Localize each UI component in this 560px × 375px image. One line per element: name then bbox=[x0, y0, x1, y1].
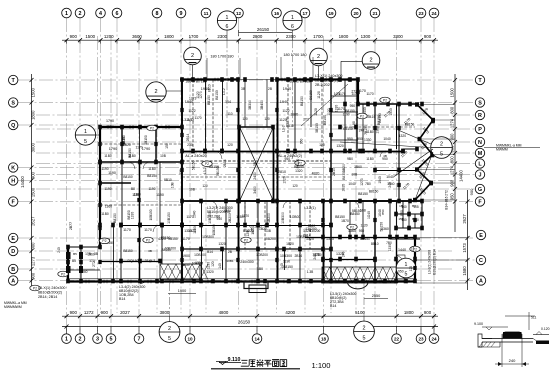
svg-text:1.3B: 1.3B bbox=[307, 270, 314, 274]
svg-text:B8150: B8150 bbox=[161, 248, 171, 252]
wall lower-left wing top bbox=[68, 246, 100, 248]
thin line across shaft top opening bbox=[239, 79, 278, 81]
plan label 1940 bbox=[283, 87, 291, 91]
grid line column 1 bbox=[66, 18, 68, 331]
wall left block partition v2 bbox=[155, 127, 157, 162]
plan label 3B bbox=[148, 249, 152, 253]
plan label 1790 bbox=[109, 147, 117, 151]
plan label 130200 bbox=[305, 227, 316, 231]
plan label 1B20 bbox=[286, 242, 294, 246]
wall grid18 vertical lower bbox=[323, 201, 325, 283]
svg-text:9B0: 9B0 bbox=[347, 157, 353, 161]
svg-text:15B: 15B bbox=[398, 217, 403, 221]
left wing dark blobs bbox=[66, 252, 100, 273]
plan label 1320 bbox=[218, 242, 226, 246]
svg-text:2B14: 2B14 bbox=[303, 233, 311, 237]
svg-text:A: A bbox=[11, 278, 15, 284]
outer wall right-central top step bbox=[357, 80, 359, 105]
svg-text:950: 950 bbox=[299, 138, 303, 144]
stair hatch area left (crosshatch) bbox=[160, 264, 208, 280]
plan label 1170 bbox=[123, 228, 131, 232]
plan label 7B0 bbox=[365, 182, 371, 186]
grid line column 7 bbox=[138, 36, 140, 331]
detail callout circle 1/5 (left block) bbox=[75, 125, 100, 145]
plan label 1040 bbox=[383, 137, 391, 141]
svg-text:5B150: 5B150 bbox=[315, 123, 319, 133]
outer wall bottom main bbox=[67, 280, 415, 282]
wall left block partition v1 bbox=[121, 127, 123, 162]
left overall dimension 14400 bbox=[20, 176, 25, 188]
svg-text:22: 22 bbox=[394, 336, 400, 341]
svg-text:3400: 3400 bbox=[253, 186, 257, 194]
plan label B8450 bbox=[350, 212, 360, 216]
plan label B8150 bbox=[123, 249, 132, 253]
plan label B8150 bbox=[123, 175, 132, 179]
grid line column 12 bbox=[238, 18, 240, 313]
svg-text:8B10: 8B10 bbox=[164, 178, 172, 182]
elevation marker circle 2 (left) bbox=[146, 82, 183, 102]
svg-text:1790: 1790 bbox=[109, 147, 117, 151]
wall grid19 vertical bbox=[330, 80, 332, 282]
svg-text:1040: 1040 bbox=[192, 210, 196, 218]
plan label 2B10 bbox=[332, 168, 336, 176]
grid bubble column 9 (top) bbox=[176, 8, 186, 18]
svg-text:P2: P2 bbox=[102, 239, 106, 243]
svg-text:B8150: B8150 bbox=[207, 95, 211, 105]
plan label 1190 bbox=[101, 167, 108, 171]
outer wall lower-left wing left bbox=[67, 247, 69, 282]
plan label 11B0 bbox=[366, 157, 374, 161]
grid bubble column 24 (top) bbox=[429, 8, 439, 18]
detail callout circle 1/6 (top left) bbox=[217, 11, 236, 30]
grid line column 11 bbox=[205, 18, 207, 313]
svg-text:1: 1 bbox=[84, 129, 87, 135]
svg-text:1320: 1320 bbox=[326, 237, 334, 241]
svg-text:4800: 4800 bbox=[219, 310, 229, 315]
right overall dimension 14400 bbox=[459, 170, 464, 182]
svg-text:1170: 1170 bbox=[144, 228, 152, 232]
plan label 1.3B bbox=[307, 270, 314, 274]
right dimension text 1500 bbox=[450, 87, 455, 97]
plan label 110 bbox=[227, 112, 232, 116]
svg-text:1OB100: 1OB100 bbox=[194, 253, 206, 257]
elevation marker circle 2 (x318) bbox=[310, 48, 328, 79]
plan label 120 bbox=[227, 143, 233, 147]
svg-text:10B150: 10B150 bbox=[167, 212, 171, 224]
svg-text:23: 23 bbox=[418, 11, 424, 16]
svg-text:1190: 1190 bbox=[156, 193, 164, 197]
svg-text:L3-2(1): L3-2(1) bbox=[304, 206, 315, 210]
svg-text:2: 2 bbox=[79, 336, 82, 342]
plan label 1170 bbox=[186, 215, 193, 219]
leader line from L3-X annotation into room bbox=[301, 84, 348, 126]
oval tag badge 12 bbox=[147, 125, 157, 131]
svg-text:2: 2 bbox=[440, 142, 443, 148]
plan label 950 bbox=[382, 157, 388, 161]
top dimension text 2300 bbox=[286, 34, 296, 39]
svg-text:1B60: 1B60 bbox=[354, 165, 362, 169]
oval tag badge 11 bbox=[30, 285, 40, 291]
svg-text:900: 900 bbox=[30, 272, 35, 280]
grid line column 10 bbox=[189, 36, 191, 331]
small rooms block right outline bbox=[397, 201, 423, 228]
svg-text:4B20: 4B20 bbox=[312, 171, 320, 175]
svg-text:8B10: 8B10 bbox=[371, 242, 379, 246]
wall x160 left block bbox=[159, 162, 161, 226]
plan label 4B bbox=[383, 154, 387, 158]
svg-text:1B20: 1B20 bbox=[291, 113, 299, 117]
wall left block H-row stub bbox=[99, 182, 131, 184]
svg-text:5: 5 bbox=[168, 336, 171, 342]
svg-text:8B10@/200(2): 8B10@/200(2) bbox=[38, 290, 62, 294]
bottom dimension text 900 bbox=[101, 310, 109, 315]
plan label 1OB200 bbox=[296, 235, 308, 239]
plan label 1O4 bbox=[334, 92, 341, 96]
plan label B8150 bbox=[323, 115, 327, 125]
plan label 1320 bbox=[306, 237, 314, 241]
svg-text:2B14; 2B14: 2B14; 2B14 bbox=[38, 295, 57, 299]
annotation block L3-4 bottom center bbox=[119, 285, 145, 301]
grid bubble row A (right lower) bbox=[476, 276, 485, 285]
svg-text:1790: 1790 bbox=[142, 147, 150, 151]
svg-text:900: 900 bbox=[424, 310, 432, 315]
grid bubble column 5 (bottom) bbox=[106, 327, 116, 344]
svg-text:B14: B14 bbox=[330, 304, 336, 308]
svg-text:1330: 1330 bbox=[335, 105, 339, 113]
grid bubble column 6 (top) bbox=[112, 8, 122, 18]
grid bubble row A (left) bbox=[9, 276, 18, 285]
grid bubble column 1 (bottom) bbox=[62, 327, 72, 344]
right dimension text 1274 bbox=[450, 118, 455, 128]
shaft riser line right below bbox=[266, 201, 268, 225]
svg-text:950: 950 bbox=[359, 229, 365, 233]
svg-text:1320: 1320 bbox=[399, 134, 407, 138]
plan label B8150 bbox=[342, 170, 346, 180]
svg-text:2T2: 2T2 bbox=[411, 246, 415, 252]
wall bottom secondary line bbox=[67, 278, 415, 280]
svg-text:2810: 2810 bbox=[278, 170, 286, 174]
wall partition x226 lower bbox=[225, 201, 227, 281]
svg-text:1320: 1320 bbox=[254, 224, 262, 228]
svg-text:B8150: B8150 bbox=[123, 249, 132, 253]
grid line row S bbox=[18, 102, 475, 104]
svg-text:1190: 1190 bbox=[104, 187, 111, 191]
svg-text:1273: 1273 bbox=[312, 253, 320, 257]
svg-text:1360: 1360 bbox=[87, 253, 95, 257]
annotation text 1900 bottom bbox=[168, 289, 196, 294]
svg-text:10: 10 bbox=[187, 336, 193, 341]
wall lower-left wing inner bbox=[80, 247, 82, 281]
plan label 1B200 bbox=[251, 225, 255, 234]
detail callout circle 2/5 (bottom right) bbox=[354, 316, 375, 342]
svg-text:11B0: 11B0 bbox=[366, 157, 374, 161]
svg-text:R: R bbox=[478, 113, 482, 119]
svg-text:1274: 1274 bbox=[450, 118, 455, 128]
grid bubble row M (right) bbox=[475, 148, 484, 157]
svg-text:1320: 1320 bbox=[218, 242, 226, 246]
svg-text:1170: 1170 bbox=[186, 118, 193, 122]
detail callout circle 1/6 (top right) bbox=[283, 11, 302, 30]
svg-text:900: 900 bbox=[469, 188, 474, 195]
svg-text:3: 3 bbox=[96, 336, 99, 342]
plan label 11B0 bbox=[193, 226, 197, 234]
grid bubble column 24 (bottom) bbox=[429, 327, 439, 344]
beam dashed central x322 bbox=[321, 80, 323, 152]
plan label B8 bbox=[131, 187, 135, 191]
svg-text:3B400: 3B400 bbox=[260, 100, 264, 110]
grid bubble column 18 (bottom) bbox=[319, 327, 329, 344]
plan label B8150 bbox=[147, 174, 157, 178]
plan label B5 bbox=[72, 259, 76, 263]
plan label 11B0 bbox=[101, 212, 109, 216]
wire leader from 1/6 circle right bbox=[292, 30, 294, 40]
grid line row T bbox=[18, 79, 475, 81]
svg-text:P2: P2 bbox=[146, 238, 150, 242]
plan label 230 bbox=[187, 143, 193, 147]
svg-text:1360: 1360 bbox=[134, 193, 142, 197]
svg-text:1272: 1272 bbox=[84, 310, 94, 315]
grid bubble row N (right) bbox=[475, 137, 484, 146]
plan label 10B150 bbox=[98, 238, 110, 242]
plan label 1170 bbox=[402, 182, 410, 190]
plan label 10B200 bbox=[264, 237, 276, 241]
bottom dimension text 2027 bbox=[120, 310, 130, 315]
svg-text:26150: 26150 bbox=[238, 320, 251, 325]
svg-text:120: 120 bbox=[409, 266, 413, 272]
beam dashed central x288 bbox=[287, 80, 289, 152]
wire leader from 1/6 circle left bbox=[226, 30, 228, 40]
plan label B8150 bbox=[345, 109, 355, 113]
grid line row A bbox=[18, 280, 475, 282]
svg-text:AL-a 240x20: AL-a 240x20 bbox=[185, 154, 207, 158]
annotation rotated x447 bbox=[445, 190, 449, 210]
grid bubble column 2 (top) bbox=[75, 8, 85, 18]
plan label 240x300 bbox=[240, 260, 253, 264]
svg-text:1170: 1170 bbox=[366, 92, 373, 96]
plan label 1B0 17B0 1B0 bbox=[185, 80, 206, 84]
right dimension text 900 bbox=[450, 133, 455, 141]
svg-text:10B300: 10B300 bbox=[281, 212, 285, 224]
grid line column 24 bbox=[433, 18, 435, 331]
wall partition x121 left rooms bbox=[120, 226, 122, 282]
svg-text:2B: 2B bbox=[268, 87, 272, 91]
svg-text:1B: 1B bbox=[399, 204, 403, 208]
top dimension text 1300 bbox=[361, 34, 371, 39]
grid bubble column 22 (bottom) bbox=[392, 327, 402, 344]
grid line row C bbox=[36, 259, 475, 261]
right dimension text 1274 bbox=[450, 165, 455, 175]
grid line column 5 bbox=[110, 36, 112, 331]
wall x357 right-central full bbox=[356, 80, 358, 152]
svg-text:6: 6 bbox=[226, 24, 229, 30]
svg-text:1120: 1120 bbox=[314, 108, 318, 116]
stub wall x284 lower band bbox=[280, 249, 285, 270]
wall grid12 vertical bbox=[238, 80, 240, 282]
svg-text:6: 6 bbox=[116, 11, 119, 17]
small hatch right of grid22 bbox=[397, 255, 405, 279]
stair shaft X diagonal 2 bbox=[240, 128, 273, 200]
grid bubble row S (right) bbox=[475, 98, 484, 107]
plan label 1B20 bbox=[342, 164, 346, 172]
svg-text:2: 2 bbox=[191, 53, 194, 59]
svg-text:240: 240 bbox=[57, 247, 61, 253]
plan label 2400 bbox=[253, 172, 257, 180]
column blobs bbox=[66, 77, 435, 283]
svg-text:P2: P2 bbox=[205, 162, 209, 166]
plan label 230 bbox=[179, 169, 183, 175]
grid bubble row C (right lower) bbox=[476, 255, 485, 264]
svg-text:9: 9 bbox=[180, 11, 183, 17]
shaft riser line right above bbox=[266, 80, 268, 128]
svg-text:B: B bbox=[11, 267, 15, 273]
grid line column 20 bbox=[355, 18, 357, 313]
plan label 1B0 17B0 1B0 bbox=[289, 80, 310, 84]
plan label 120 bbox=[264, 117, 270, 121]
plan label 1940 bbox=[201, 87, 209, 91]
svg-text:130200: 130200 bbox=[310, 229, 321, 233]
top dimension text 900 bbox=[70, 34, 78, 39]
svg-text:P2: P2 bbox=[350, 225, 354, 229]
plan label 1O40 bbox=[367, 211, 371, 219]
detail section drawing (bottom right) bbox=[474, 312, 550, 367]
svg-text:240: 240 bbox=[341, 251, 345, 257]
window tick marks central top wall bbox=[188, 78, 351, 82]
svg-text:L3-X(1) 240x300: L3-X(1) 240x300 bbox=[315, 74, 342, 78]
svg-text:1330: 1330 bbox=[364, 138, 372, 142]
plan label 1OB200 bbox=[256, 253, 268, 257]
svg-text:1790: 1790 bbox=[106, 119, 114, 123]
grid bubble row P (right) bbox=[475, 124, 484, 133]
svg-text:1B20: 1B20 bbox=[286, 242, 294, 246]
svg-text:8B10: 8B10 bbox=[207, 84, 211, 92]
svg-text:1273: 1273 bbox=[199, 91, 203, 99]
plan label 1B200 bbox=[267, 213, 271, 223]
outer wall top-left block top bbox=[99, 126, 183, 128]
wall x350 lower right rooms bbox=[349, 201, 351, 237]
svg-text:18: 18 bbox=[321, 336, 327, 341]
svg-text:3000: 3000 bbox=[30, 142, 35, 152]
svg-text:2B14: 2B14 bbox=[294, 254, 302, 258]
svg-text:950: 950 bbox=[398, 269, 404, 273]
svg-text:4200: 4200 bbox=[285, 310, 295, 315]
stair shaft X diagonal 1 bbox=[240, 128, 273, 200]
plan label 1B bbox=[399, 204, 403, 208]
outer wall upper-left side bbox=[99, 126, 101, 248]
svg-text:1800: 1800 bbox=[404, 310, 414, 315]
svg-text:2: 2 bbox=[154, 89, 157, 95]
svg-text:M: M bbox=[478, 151, 483, 157]
svg-text:2B200: 2B200 bbox=[228, 213, 232, 223]
section cut line through plan at x292.5 bbox=[292, 40, 294, 127]
svg-text:B10@200(2) B14: B10@200(2) B14 bbox=[433, 249, 437, 275]
annotation block L5-X bottom left bbox=[38, 286, 65, 299]
svg-text:6B150: 6B150 bbox=[343, 127, 353, 131]
grid bubble column 20 (top) bbox=[351, 8, 361, 18]
svg-text:P2: P2 bbox=[33, 286, 37, 290]
stair shaft right wall bbox=[273, 127, 275, 201]
bottom dimension text 900 bbox=[424, 310, 432, 315]
svg-text:10B: 10B bbox=[171, 181, 175, 188]
grid bubble column 10 (bottom) bbox=[185, 327, 195, 344]
grid line column 23 bbox=[420, 18, 422, 331]
svg-text:180 1700 180: 180 1700 180 bbox=[283, 53, 306, 57]
beam dashed lower x290 bbox=[289, 201, 291, 249]
right dimension line bbox=[453, 74, 457, 232]
plan label 13B0 bbox=[314, 253, 322, 257]
svg-text:0.120: 0.120 bbox=[541, 327, 550, 331]
grid bubble column 23 (bottom) bbox=[416, 327, 426, 344]
leader line for L3-4 bbox=[140, 281, 148, 284]
svg-text:3600: 3600 bbox=[132, 34, 142, 39]
stair shaft top wall bbox=[239, 126, 275, 128]
plan label 11B0 bbox=[366, 130, 374, 134]
wall rooms band horizontal y225 bbox=[121, 225, 331, 227]
wall y259 above hatch bbox=[325, 259, 375, 261]
svg-text:1190: 1190 bbox=[101, 167, 108, 171]
grid bubble row H (left) bbox=[9, 176, 18, 185]
svg-text:5B150: 5B150 bbox=[352, 209, 362, 213]
grid bubble row K (left) bbox=[9, 163, 18, 172]
plan label B8150 bbox=[358, 192, 368, 196]
svg-text:2550: 2550 bbox=[372, 294, 380, 298]
svg-text:1OB300: 1OB300 bbox=[202, 235, 214, 239]
wall horizontal y249 central band bbox=[182, 248, 331, 250]
wall grid7 vertical bbox=[139, 127, 141, 281]
plan label 3B bbox=[94, 252, 98, 256]
svg-text:B8150: B8150 bbox=[113, 213, 117, 223]
svg-text:B450: B450 bbox=[182, 263, 190, 267]
grid line row D bbox=[18, 250, 452, 252]
top dimension line bbox=[62, 38, 438, 43]
grid bubble row L (right) bbox=[475, 159, 484, 168]
plan label 1170 bbox=[144, 228, 152, 232]
plan label B14 bbox=[207, 250, 213, 254]
svg-text:1580: 1580 bbox=[462, 266, 467, 276]
oval tag badge 2 bbox=[143, 237, 153, 243]
wall y237 lower right bbox=[305, 237, 415, 239]
svg-text:1500: 1500 bbox=[85, 34, 95, 39]
svg-text:5: 5 bbox=[363, 335, 366, 341]
extension lines wing vertices to right dim line bbox=[415, 105, 455, 201]
svg-text:B5: B5 bbox=[73, 252, 77, 256]
plan label 1170 bbox=[403, 117, 411, 125]
door jamb stub x207 bbox=[207, 58, 240, 79]
plan label 10B150 bbox=[212, 224, 216, 235]
left dimension text 1500 bbox=[30, 187, 35, 197]
plan label 1120 bbox=[314, 108, 318, 116]
svg-text:1800: 1800 bbox=[30, 110, 35, 120]
plan label 1120 bbox=[327, 108, 331, 115]
svg-text:1:100: 1:100 bbox=[311, 361, 330, 370]
svg-text:7B0: 7B0 bbox=[365, 182, 371, 186]
svg-text:120: 120 bbox=[319, 143, 325, 147]
plan label 1440 bbox=[398, 248, 406, 252]
plan label AL-a 240x2(2) bbox=[278, 154, 303, 158]
svg-text:1190: 1190 bbox=[148, 187, 155, 191]
svg-text:24: 24 bbox=[431, 336, 437, 341]
grid line column 22 bbox=[396, 36, 398, 331]
svg-text:1800: 1800 bbox=[164, 34, 174, 39]
svg-text:2800: 2800 bbox=[253, 34, 263, 39]
svg-text:950: 950 bbox=[357, 137, 363, 141]
plan label 13B bbox=[265, 229, 271, 233]
plan label 17B0 bbox=[106, 125, 114, 129]
plan label 2B bbox=[228, 250, 233, 254]
svg-text:1B0: 1B0 bbox=[257, 267, 263, 271]
grid bubble column 23 (top) bbox=[416, 8, 426, 18]
bay window arc bottom bbox=[348, 283, 369, 289]
svg-text:1940: 1940 bbox=[280, 100, 288, 104]
